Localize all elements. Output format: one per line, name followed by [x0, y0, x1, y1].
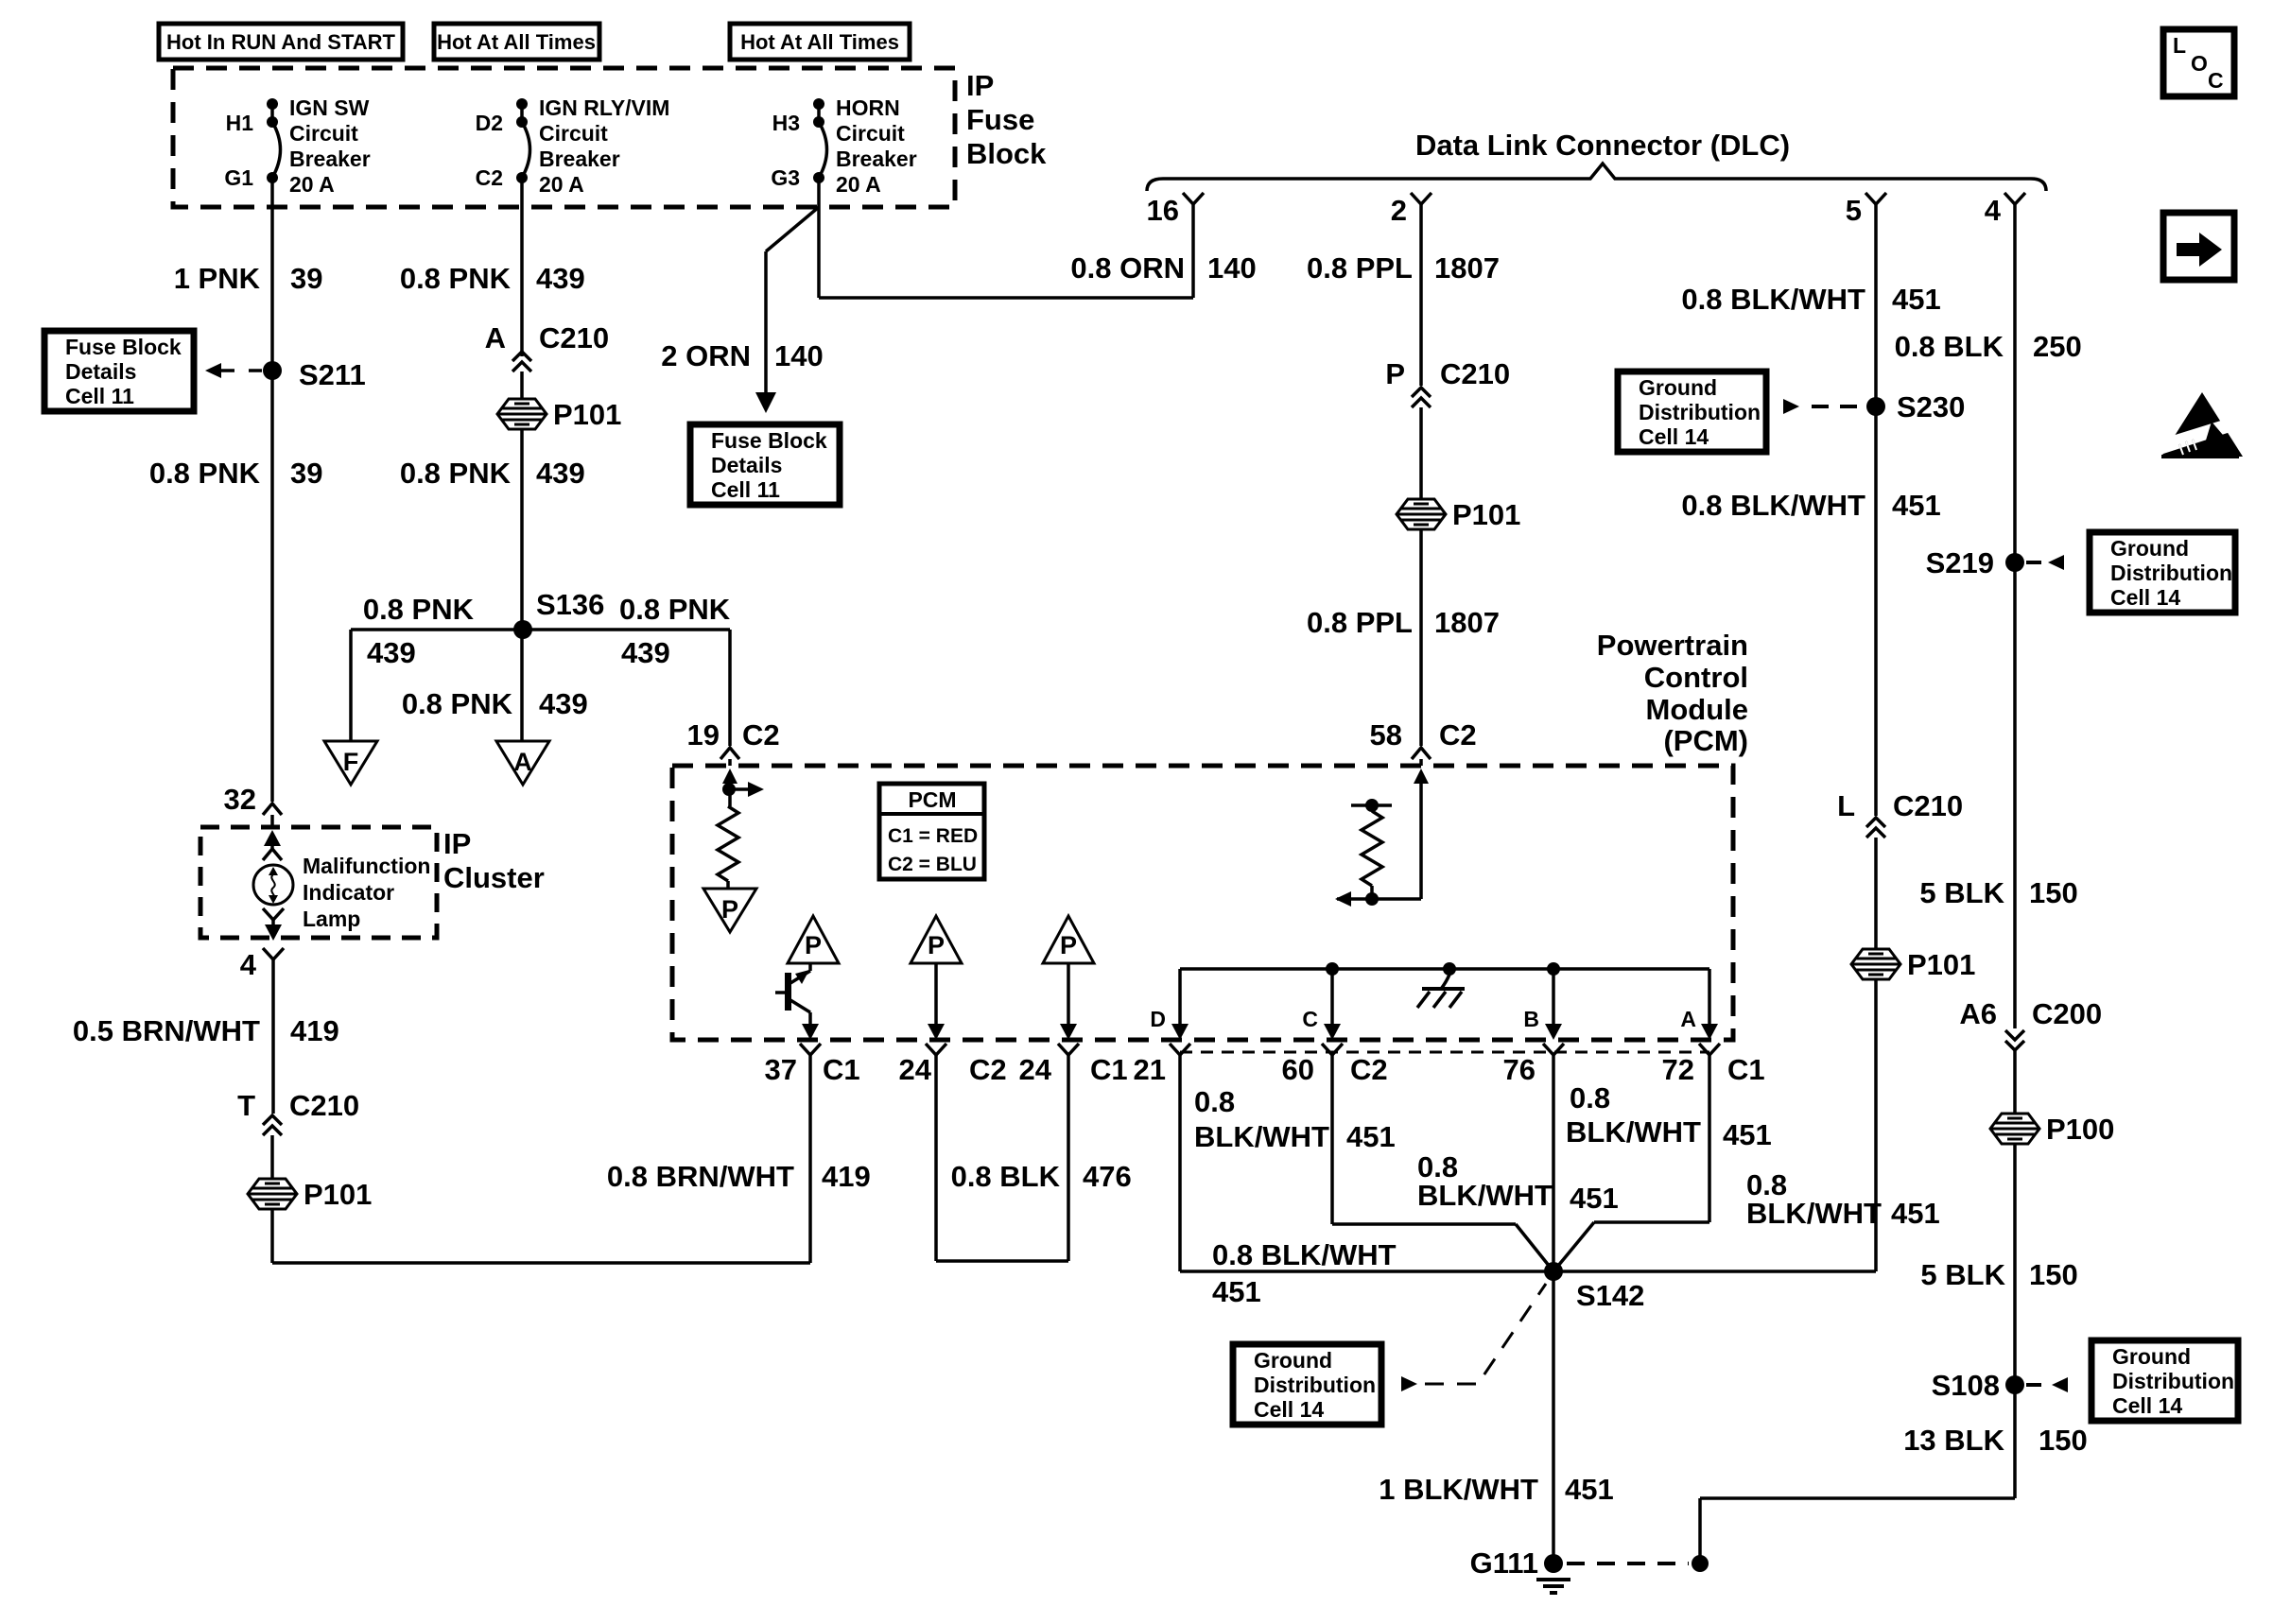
svg-text:S211: S211 — [299, 358, 366, 391]
svg-text:P: P — [928, 931, 945, 959]
svg-text:0.8 BLK/WHT: 0.8 BLK/WHT — [1681, 489, 1865, 522]
svg-text:451: 451 — [1723, 1118, 1772, 1151]
svg-text:C210: C210 — [1440, 357, 1510, 390]
svg-text:L: L — [1837, 789, 1855, 822]
svg-text:A: A — [485, 321, 506, 354]
svg-text:Hot In RUN And START: Hot In RUN And START — [166, 30, 396, 54]
svg-text:0.8: 0.8 — [1194, 1085, 1235, 1118]
svg-text:439: 439 — [621, 636, 670, 669]
svg-text:Cell 14: Cell 14 — [2110, 585, 2180, 610]
svg-text:C: C — [1302, 1007, 1318, 1031]
svg-text:Fuse: Fuse — [966, 103, 1034, 136]
svg-text:1807: 1807 — [1434, 251, 1500, 285]
svg-text:D: D — [1150, 1007, 1166, 1031]
svg-text:C1: C1 — [823, 1053, 860, 1086]
svg-text:0.8 PPL: 0.8 PPL — [1307, 606, 1413, 639]
svg-text:0.8 BLK: 0.8 BLK — [1895, 330, 2004, 363]
svg-text:O: O — [2191, 51, 2208, 76]
svg-text:S108: S108 — [1932, 1369, 2000, 1402]
svg-text:58: 58 — [1370, 718, 1402, 752]
svg-text:Cell 14: Cell 14 — [2112, 1393, 2182, 1418]
svg-text:4: 4 — [1985, 194, 2002, 227]
svg-text:Distribution: Distribution — [1639, 400, 1761, 424]
svg-text:451: 451 — [1892, 489, 1941, 522]
svg-text:C200: C200 — [2032, 997, 2102, 1030]
svg-text:439: 439 — [539, 687, 588, 720]
svg-text:G1: G1 — [224, 165, 253, 190]
svg-text:39: 39 — [290, 457, 322, 490]
svg-text:(PCM): (PCM) — [1663, 724, 1748, 757]
svg-text:5: 5 — [1846, 194, 1862, 227]
svg-text:C210: C210 — [1893, 789, 1963, 822]
svg-text:Indicator: Indicator — [303, 880, 394, 905]
svg-text:0.8 BLK: 0.8 BLK — [951, 1160, 1061, 1193]
svg-text:0.8 PNK: 0.8 PNK — [400, 262, 512, 295]
svg-text:21: 21 — [1134, 1053, 1166, 1086]
svg-text:20 A: 20 A — [539, 172, 584, 197]
svg-text:C2: C2 — [969, 1053, 1007, 1086]
svg-text:Powertrain: Powertrain — [1597, 629, 1748, 662]
svg-text:20 A: 20 A — [289, 172, 335, 197]
svg-text:C2: C2 — [1350, 1053, 1388, 1086]
svg-text:Circuit: Circuit — [836, 121, 905, 146]
svg-text:0.8 PNK: 0.8 PNK — [619, 593, 731, 626]
svg-text:P101: P101 — [1907, 948, 1975, 981]
svg-text:P101: P101 — [1452, 498, 1520, 531]
svg-text:0.8 PNK: 0.8 PNK — [400, 457, 512, 490]
svg-text:32: 32 — [224, 783, 256, 816]
svg-text:A: A — [513, 748, 532, 776]
svg-text:0.8 PNK: 0.8 PNK — [149, 457, 261, 490]
svg-text:Cell 14: Cell 14 — [1254, 1397, 1324, 1422]
svg-text:S142: S142 — [1576, 1279, 1644, 1312]
svg-text:0.8 BLK/WHT: 0.8 BLK/WHT — [1212, 1238, 1397, 1271]
svg-text:439: 439 — [536, 457, 585, 490]
svg-text:Hot At All Times: Hot At All Times — [740, 30, 899, 54]
svg-text:G111: G111 — [1470, 1546, 1538, 1580]
svg-text:60: 60 — [1282, 1053, 1314, 1086]
svg-text:0.8 PPL: 0.8 PPL — [1307, 251, 1413, 285]
svg-text:Fuse Block: Fuse Block — [711, 428, 827, 453]
svg-text:Ground: Ground — [2110, 536, 2189, 561]
svg-text:0.8 BLK/WHT: 0.8 BLK/WHT — [1681, 283, 1865, 316]
svg-text:451: 451 — [1892, 283, 1941, 316]
svg-text:Fuse Block: Fuse Block — [65, 335, 182, 359]
svg-text:439: 439 — [536, 262, 585, 295]
svg-text:0.8 PNK: 0.8 PNK — [363, 593, 475, 626]
svg-text:C1: C1 — [1727, 1053, 1765, 1086]
svg-text:P: P — [1385, 357, 1405, 390]
svg-text:24: 24 — [1019, 1053, 1052, 1086]
svg-text:Cluster: Cluster — [443, 861, 545, 894]
svg-text:PCM: PCM — [908, 787, 956, 812]
svg-text:T: T — [237, 1089, 255, 1122]
svg-text:Breaker: Breaker — [539, 147, 620, 171]
svg-text:439: 439 — [367, 636, 416, 669]
svg-text:20 A: 20 A — [836, 172, 881, 197]
svg-text:P: P — [1060, 931, 1077, 959]
svg-text:BLK/WHT: BLK/WHT — [1566, 1115, 1701, 1149]
svg-text:1 BLK/WHT: 1 BLK/WHT — [1379, 1473, 1538, 1506]
svg-text:H1: H1 — [226, 111, 254, 135]
svg-text:F: F — [343, 748, 359, 776]
svg-text:451: 451 — [1346, 1120, 1396, 1153]
svg-text:Hot At All Times: Hot At All Times — [437, 30, 596, 54]
svg-text:13 BLK: 13 BLK — [1903, 1424, 2004, 1457]
svg-text:76: 76 — [1503, 1053, 1536, 1086]
svg-text:L: L — [2173, 33, 2186, 58]
svg-text:Control: Control — [1644, 661, 1748, 694]
svg-text:Block: Block — [966, 137, 1047, 170]
svg-text:419: 419 — [822, 1160, 871, 1193]
svg-text:G3: G3 — [771, 165, 800, 190]
svg-text:C1 = RED: C1 = RED — [888, 825, 978, 847]
svg-text:Details: Details — [65, 359, 136, 384]
svg-text:Ground: Ground — [1254, 1348, 1332, 1373]
svg-text:C1: C1 — [1090, 1053, 1128, 1086]
svg-text:2: 2 — [1391, 194, 1407, 227]
svg-text:H3: H3 — [772, 111, 800, 135]
svg-text:419: 419 — [290, 1014, 339, 1047]
svg-text:P101: P101 — [304, 1178, 372, 1211]
svg-text:72: 72 — [1662, 1053, 1694, 1086]
svg-text:P: P — [721, 895, 738, 924]
svg-text:1807: 1807 — [1434, 606, 1500, 639]
svg-text:Ground: Ground — [1639, 375, 1717, 400]
svg-text:HORN: HORN — [836, 95, 900, 120]
svg-text:Distribution: Distribution — [1254, 1373, 1376, 1397]
svg-text:19: 19 — [687, 718, 720, 752]
svg-text:A6: A6 — [1959, 997, 1997, 1030]
svg-text:Data Link Connector (DLC): Data Link Connector (DLC) — [1415, 129, 1790, 162]
svg-text:C2: C2 — [1439, 718, 1477, 752]
svg-text:Distribution: Distribution — [2110, 561, 2232, 585]
svg-text:S230: S230 — [1897, 390, 1965, 423]
svg-text:250: 250 — [2033, 330, 2082, 363]
svg-text:IGN SW: IGN SW — [289, 95, 370, 120]
svg-text:C2: C2 — [742, 718, 780, 752]
svg-text:Malifunction: Malifunction — [303, 854, 430, 878]
svg-text:16: 16 — [1147, 194, 1179, 227]
svg-text:S219: S219 — [1926, 546, 1994, 579]
svg-text:BLK/WHT: BLK/WHT — [1746, 1197, 1882, 1230]
svg-text:C2: C2 — [476, 165, 503, 190]
svg-text:C: C — [2208, 68, 2224, 93]
svg-text:Ground: Ground — [2112, 1344, 2191, 1369]
svg-text:140: 140 — [1207, 251, 1257, 285]
svg-text:C210: C210 — [539, 321, 609, 354]
svg-text:2 ORN: 2 ORN — [661, 339, 751, 372]
svg-text:5 BLK: 5 BLK — [1920, 1258, 2005, 1291]
svg-text:451: 451 — [1570, 1182, 1619, 1215]
svg-text:1 PNK: 1 PNK — [174, 262, 261, 295]
svg-text:P: P — [805, 931, 822, 959]
svg-text:Breaker: Breaker — [289, 147, 371, 171]
svg-text:P100: P100 — [2046, 1113, 2114, 1146]
svg-text:IP: IP — [966, 69, 994, 102]
svg-text:Details: Details — [711, 453, 782, 477]
svg-text:Lamp: Lamp — [303, 907, 360, 931]
svg-text:5 BLK: 5 BLK — [1919, 876, 2004, 909]
svg-text:Breaker: Breaker — [836, 147, 917, 171]
svg-text:150: 150 — [2029, 1258, 2078, 1291]
svg-text:0.8 ORN: 0.8 ORN — [1070, 251, 1185, 285]
svg-text:37: 37 — [765, 1053, 797, 1086]
svg-text:24: 24 — [899, 1053, 932, 1086]
svg-text:Module: Module — [1646, 693, 1749, 726]
svg-text:B: B — [1523, 1007, 1539, 1031]
svg-text:451: 451 — [1212, 1275, 1261, 1308]
svg-text:0.8 PNK: 0.8 PNK — [402, 687, 513, 720]
svg-text:476: 476 — [1083, 1160, 1132, 1193]
svg-text:IP: IP — [443, 827, 471, 860]
svg-text:0.8 BRN/WHT: 0.8 BRN/WHT — [607, 1160, 794, 1193]
svg-text:C2 = BLU: C2 = BLU — [888, 854, 977, 875]
svg-text:S136: S136 — [536, 588, 604, 621]
svg-text:BLK/WHT: BLK/WHT — [1417, 1179, 1553, 1212]
svg-text:150: 150 — [2039, 1424, 2088, 1457]
svg-text:C210: C210 — [289, 1089, 359, 1122]
svg-text:Cell 11: Cell 11 — [65, 384, 134, 408]
svg-text:P101: P101 — [553, 398, 621, 431]
svg-text:IGN RLY/VIM: IGN RLY/VIM — [539, 95, 669, 120]
svg-text:451: 451 — [1565, 1473, 1614, 1506]
svg-text:0.5 BRN/WHT: 0.5 BRN/WHT — [73, 1014, 260, 1047]
svg-text:0.8: 0.8 — [1570, 1081, 1610, 1114]
svg-text:A: A — [1680, 1007, 1696, 1031]
svg-text:Circuit: Circuit — [539, 121, 608, 146]
svg-text:BLK/WHT: BLK/WHT — [1194, 1120, 1329, 1153]
svg-text:451: 451 — [1891, 1197, 1940, 1230]
svg-text:D2: D2 — [476, 111, 503, 135]
svg-text:140: 140 — [774, 339, 824, 372]
svg-text:Circuit: Circuit — [289, 121, 358, 146]
svg-text:150: 150 — [2029, 876, 2078, 909]
svg-text:Cell 14: Cell 14 — [1639, 424, 1709, 449]
svg-text:39: 39 — [290, 262, 322, 295]
svg-text:Distribution: Distribution — [2112, 1369, 2234, 1393]
svg-text:Cell 11: Cell 11 — [711, 477, 780, 502]
svg-text:4: 4 — [240, 948, 257, 981]
